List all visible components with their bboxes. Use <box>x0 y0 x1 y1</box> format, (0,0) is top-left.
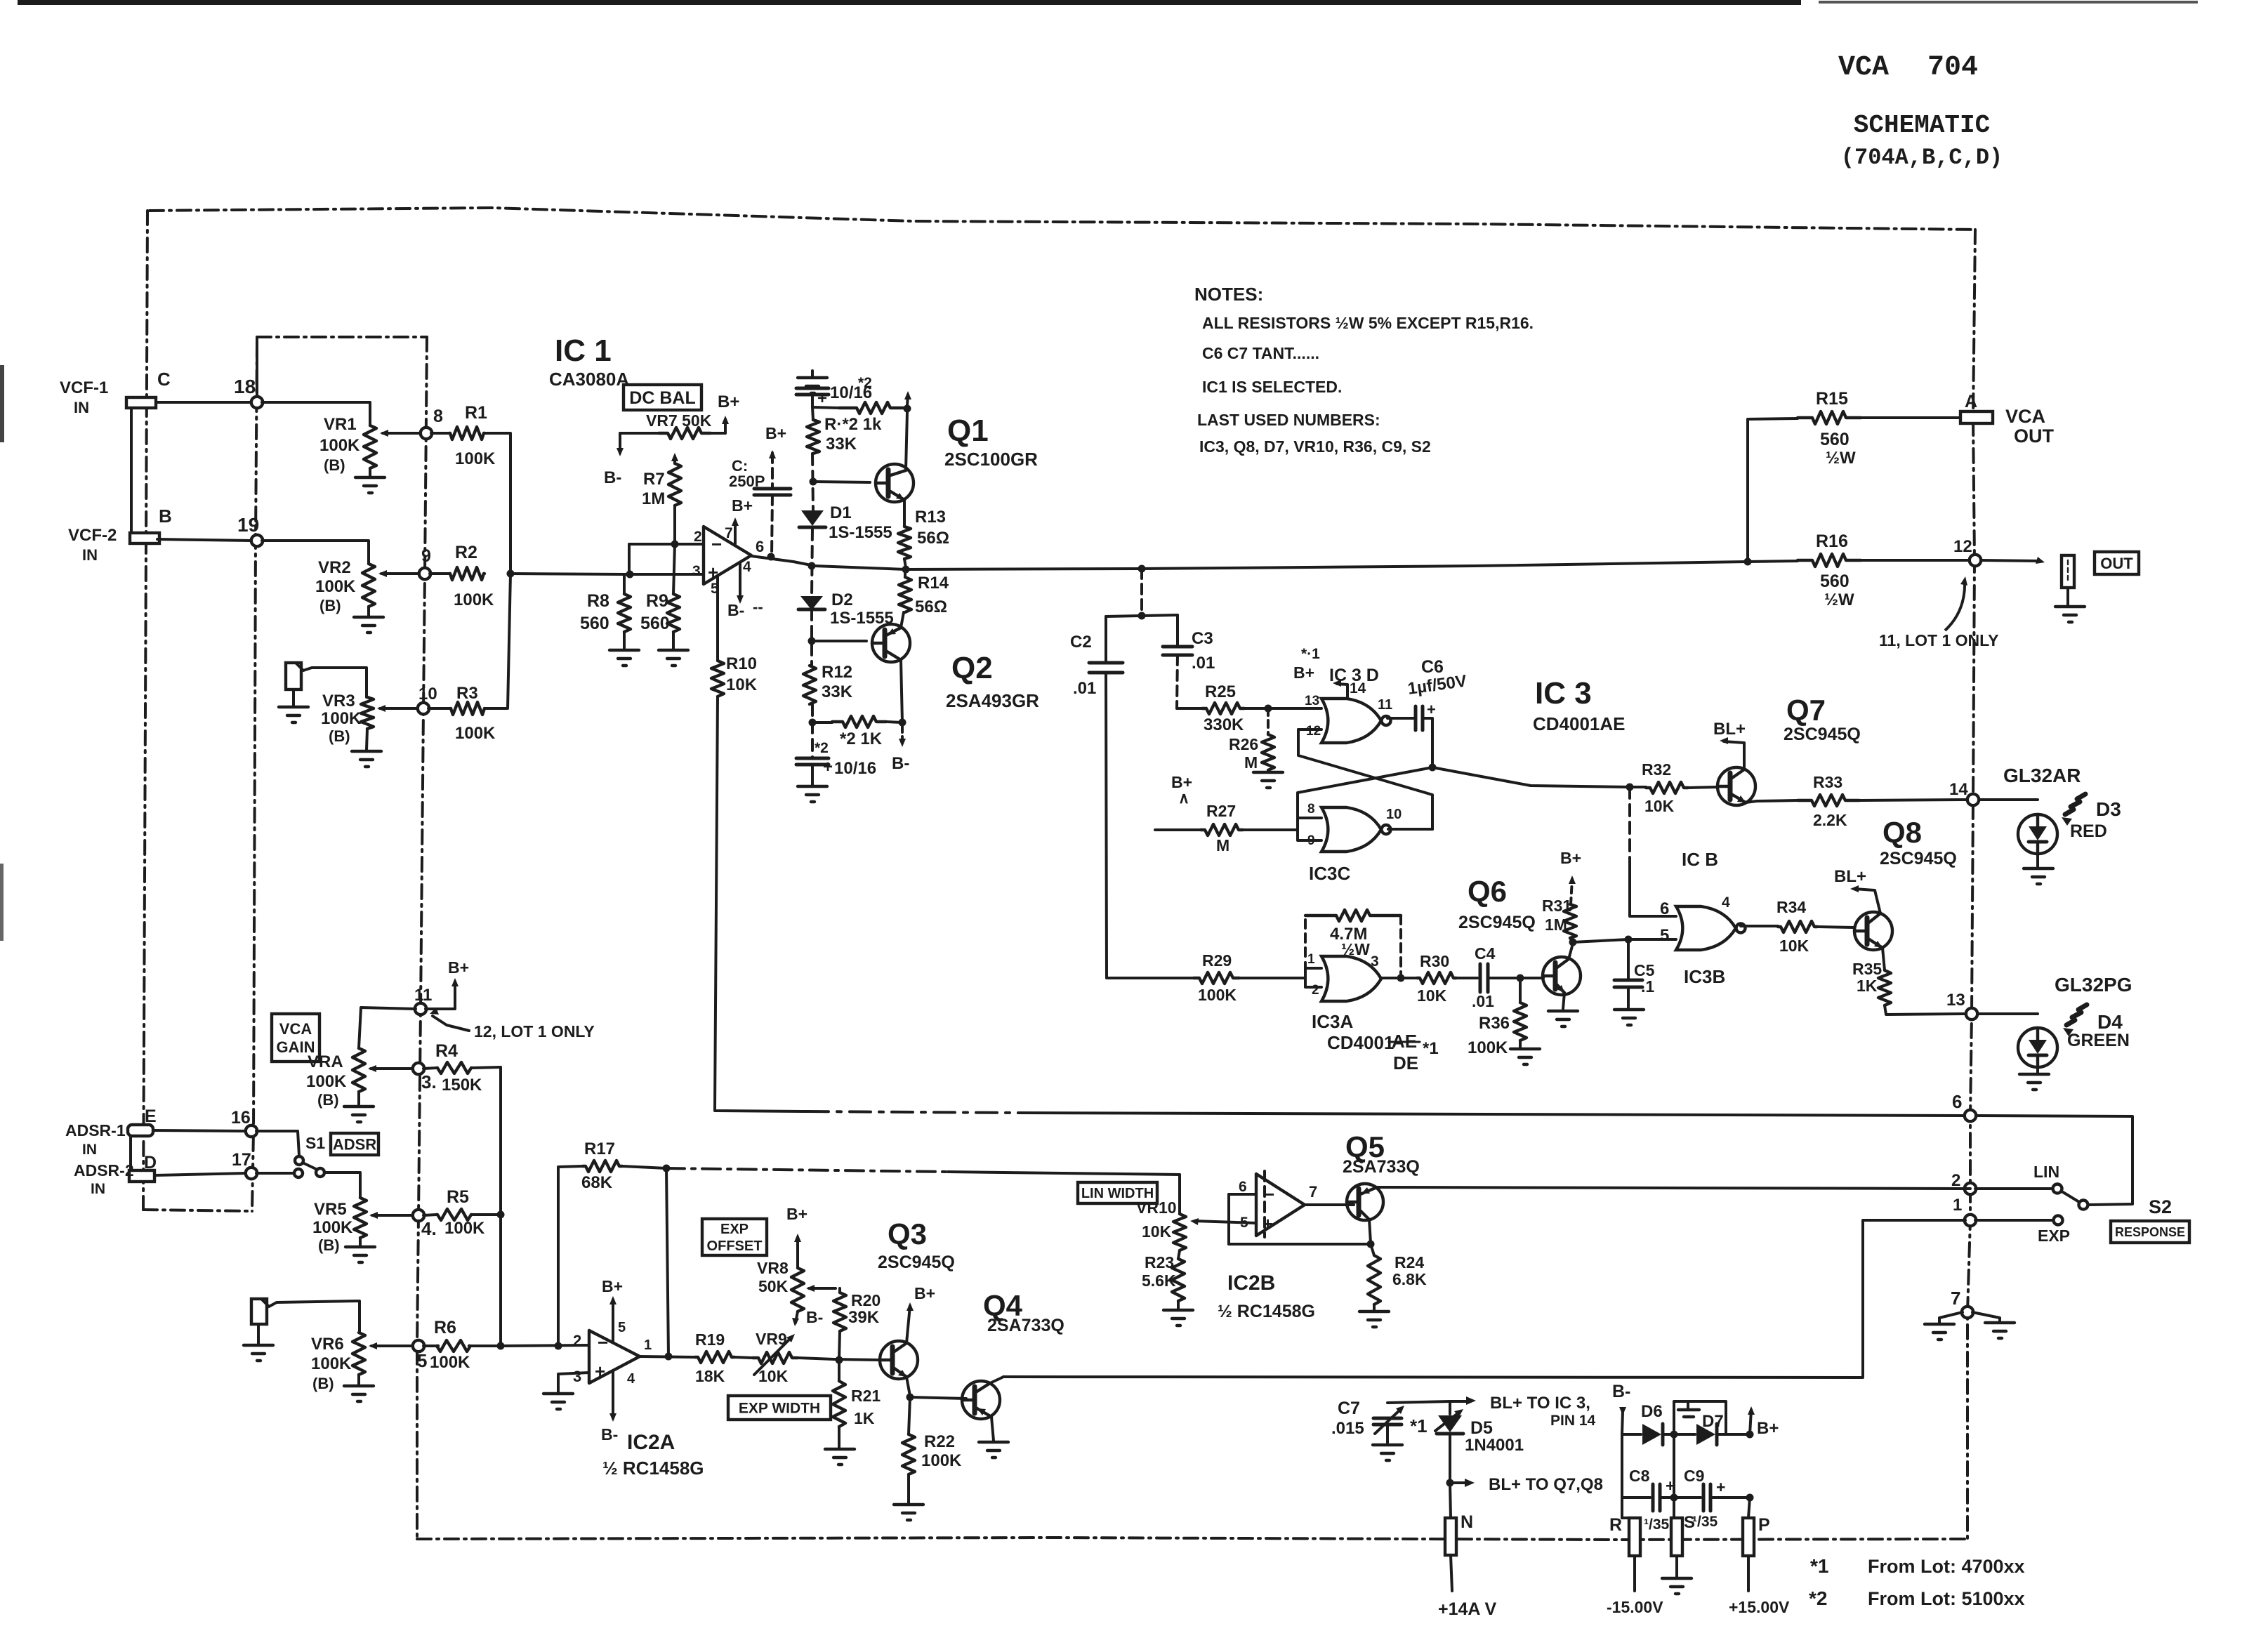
svg-text:S1: S1 <box>305 1134 325 1152</box>
svg-text:R4: R4 <box>435 1041 458 1061</box>
svg-text:ADSR: ADSR <box>333 1135 376 1153</box>
svg-text:M: M <box>1244 753 1258 772</box>
svg-text:(B): (B) <box>324 456 345 474</box>
wire Q7 emitter <box>1746 800 1798 802</box>
wire Q2 emitter <box>901 612 904 628</box>
svg-text:11: 11 <box>1378 697 1392 713</box>
svg-text:R35: R35 <box>1852 960 1882 978</box>
box EXP WIDTH <box>728 1396 831 1420</box>
svg-text:(B): (B) <box>312 1375 334 1392</box>
potentiometer VR1 <box>319 415 425 474</box>
stub bus to C2C3 <box>1138 565 1146 620</box>
svg-text:1M: 1M <box>1545 916 1567 934</box>
svg-text:18: 18 <box>234 376 256 397</box>
NOR gate IC3A <box>1307 952 1381 1032</box>
trimmer VR8 <box>757 1259 836 1312</box>
svg-text:OFFSET: OFFSET <box>707 1238 763 1254</box>
ground R9 <box>659 650 688 666</box>
svg-text:Q6: Q6 <box>1468 875 1507 908</box>
ground R8 <box>609 650 639 666</box>
svg-text:B-: B- <box>806 1308 823 1326</box>
svg-text:−: − <box>711 534 722 555</box>
svg-text:C6 C7 TANT......: C6 C7 TANT...... <box>1202 344 1319 362</box>
ground R24 <box>1359 1304 1389 1327</box>
label ADSR-1 IN <box>65 1121 126 1158</box>
svg-text:R30: R30 <box>1420 952 1449 970</box>
svg-text:33K: 33K <box>826 435 857 454</box>
svg-text:39K: 39K <box>848 1308 880 1327</box>
wire N to +14AV <box>1438 1555 1496 1619</box>
bias column dash-dot <box>812 395 813 758</box>
transistor Q3 <box>878 1217 955 1379</box>
svg-text:R21: R21 <box>851 1387 881 1405</box>
svg-text:N: N <box>1461 1512 1473 1532</box>
svg-text:4: 4 <box>627 1371 635 1387</box>
node 8 <box>421 407 443 439</box>
transistor Q6 <box>1458 875 1581 995</box>
node 5 <box>413 1340 428 1371</box>
svg-text:B-: B- <box>727 601 744 619</box>
node 11 <box>414 986 432 1015</box>
svg-text:B-: B- <box>1612 1382 1630 1401</box>
svg-text:IC3A: IC3A <box>1312 1011 1353 1032</box>
svg-text:R36: R36 <box>1479 1014 1510 1033</box>
resistor R20 <box>833 1288 881 1360</box>
svg-text:4: 4 <box>743 559 751 575</box>
wire node18 to VR1 <box>262 402 370 425</box>
wire C6 down <box>1423 718 1432 767</box>
resistor R23 <box>1142 1250 1185 1301</box>
svg-text:RED: RED <box>2070 821 2107 841</box>
svg-text:2.2K: 2.2K <box>1813 811 1847 829</box>
junction R8 on +input <box>626 571 634 579</box>
IC1 pin4 B- arrow <box>727 562 763 619</box>
svg-text:6: 6 <box>1952 1091 1962 1112</box>
svg-text:R6: R6 <box>434 1318 456 1337</box>
svg-text:From Lot: 5100xx: From Lot: 5100xx <box>1868 1588 2025 1609</box>
svg-text:100K: 100K <box>454 590 494 609</box>
ground R23 <box>1163 1301 1193 1326</box>
svg-text:R10: R10 <box>726 654 757 673</box>
svg-text:6: 6 <box>756 538 764 555</box>
svg-text:1M: 1M <box>642 489 665 508</box>
wire VR9 to Q3 <box>834 1359 880 1360</box>
svg-text:VR8: VR8 <box>757 1259 789 1277</box>
resistor R12 33K <box>803 663 853 704</box>
wire node14 to D3 <box>1979 798 2038 801</box>
title VCA 704 <box>1838 52 1978 84</box>
transistor Q1 <box>876 414 1038 502</box>
svg-text:1S-1555: 1S-1555 <box>829 523 892 542</box>
junction R17 bottom <box>555 1342 562 1350</box>
svg-text:EXP: EXP <box>720 1222 749 1237</box>
svg-text:10K: 10K <box>1142 1222 1172 1241</box>
svg-text:R1: R1 <box>465 403 487 423</box>
resistor R27 <box>1155 802 1298 854</box>
resistor R supply <box>1609 1498 1670 1556</box>
resistor R26 <box>1229 708 1274 772</box>
svg-text:½ RC1458G: ½ RC1458G <box>1218 1302 1315 1321</box>
node 9 <box>419 546 431 579</box>
svg-text:2: 2 <box>1312 983 1319 998</box>
svg-text:D6: D6 <box>1641 1402 1663 1421</box>
B- arrow VR8 <box>792 1308 823 1326</box>
svg-text:B+: B+ <box>1757 1419 1779 1438</box>
capacitor C1 <box>729 424 791 556</box>
NOR gate IC3D <box>1305 694 1392 743</box>
wire latch to R32 <box>1432 767 1630 787</box>
trimmer VR3 <box>321 692 418 745</box>
trimmer connector VR3 <box>286 663 367 697</box>
svg-text:2SA733Q: 2SA733Q <box>987 1316 1064 1335</box>
svg-text:2: 2 <box>694 529 702 545</box>
svg-text:C9: C9 <box>1684 1467 1704 1485</box>
svg-text:5: 5 <box>417 1350 427 1371</box>
svg-text:R15: R15 <box>1816 389 1848 409</box>
svg-text:100K: 100K <box>312 1218 353 1237</box>
resistor R15 <box>1748 389 1959 562</box>
svg-text:560: 560 <box>580 614 609 633</box>
ground VRA <box>344 1092 374 1122</box>
wire IC2A out to R19 <box>640 1356 695 1357</box>
svg-text:1: 1 <box>1307 952 1315 967</box>
svg-text:4.: 4. <box>421 1218 437 1239</box>
B+ arrow IC2A <box>602 1277 623 1342</box>
capacitor C7 <box>1331 1399 1404 1443</box>
note from lot 1 <box>1810 1555 2025 1577</box>
svg-text:R9: R9 <box>646 591 668 611</box>
svg-text:3: 3 <box>692 563 701 579</box>
box LIN WIDTH <box>1078 1182 1157 1203</box>
wire node12 to OUT <box>1981 557 2045 564</box>
IC3A input bracket <box>1305 963 1321 987</box>
svg-text:R3: R3 <box>456 684 478 703</box>
svg-text:560: 560 <box>1820 572 1850 591</box>
ground D4 <box>2019 1067 2049 1090</box>
svg-text:B+: B+ <box>448 958 469 977</box>
title (704A,B,C,D) <box>1841 145 2003 171</box>
B+ arrow Q3 <box>906 1284 935 1343</box>
wire E-D link <box>129 1136 132 1170</box>
trimmer VR7 <box>620 411 725 439</box>
svg-text:56Ω: 56Ω <box>917 529 949 548</box>
transistor Q5 <box>1343 1130 1420 1220</box>
junction R6 <box>497 1342 505 1350</box>
svg-text:VCA: VCA <box>1838 52 1889 84</box>
resistor R16 <box>1748 531 1967 609</box>
capacitor C9 <box>1670 1434 1751 1518</box>
svg-text:−: − <box>598 1332 608 1353</box>
svg-text:5.6K: 5.6K <box>1142 1271 1176 1290</box>
svg-text:+: + <box>1427 701 1436 718</box>
svg-text:IC2A: IC2A <box>627 1431 675 1454</box>
svg-text:(B): (B) <box>318 1236 340 1254</box>
svg-text:R14: R14 <box>918 574 949 593</box>
node 13 <box>1946 991 1977 1019</box>
resistor *2 1K horizontal low <box>812 716 902 748</box>
switch S1 <box>256 1131 325 1177</box>
wire R35 to node 13 <box>1885 1005 1966 1015</box>
svg-text:D3: D3 <box>2096 798 2121 820</box>
svg-text:2SC945Q: 2SC945Q <box>1880 849 1957 868</box>
resistor 1K *2 horizontal <box>812 402 907 434</box>
svg-text:R2: R2 <box>455 543 477 562</box>
panel dash through IC2B <box>1263 1171 1266 1237</box>
node 16 <box>231 1108 257 1137</box>
svg-text:VR5: VR5 <box>314 1200 347 1219</box>
svg-text:PIN 14: PIN 14 <box>1550 1413 1596 1429</box>
svg-text:13: 13 <box>1305 694 1319 708</box>
svg-text:DE: DE <box>1393 1052 1418 1073</box>
transistor Q2 <box>872 624 1039 711</box>
junction R15 R16 <box>1744 558 1752 566</box>
ground trimmer VR3 connector <box>279 689 308 722</box>
ground C5 <box>1614 987 1644 1025</box>
B+ arm of VR7 <box>718 392 739 433</box>
svg-text:R27: R27 <box>1206 802 1236 820</box>
resistor R4 <box>423 1041 501 1095</box>
resistor P supply <box>1743 1494 1770 1557</box>
diode D1 <box>799 503 892 542</box>
wire Q4 emitter <box>990 1377 1003 1383</box>
connector C (VCF-1) <box>126 369 171 408</box>
wire Q6 collector <box>1569 939 1577 960</box>
ground VR6 <box>344 1375 374 1401</box>
svg-text:R22: R22 <box>924 1432 955 1451</box>
ground OUT jack <box>2055 588 2085 622</box>
svg-text:IN: IN <box>82 1142 97 1158</box>
svg-text:½W: ½W <box>1341 940 1370 958</box>
svg-text:ALL RESISTORS ½W 5% EXCEPT R15: ALL RESISTORS ½W 5% EXCEPT R15,R16. <box>1202 314 1534 332</box>
wire Q5 to node2 <box>1377 1187 1970 1189</box>
wire node11 to VRA <box>359 1008 416 1048</box>
potentiometer VRA <box>306 1048 413 1109</box>
junction R5 <box>497 1211 505 1219</box>
svg-text:LIN: LIN <box>2033 1163 2059 1181</box>
svg-text:*2: *2 <box>858 375 872 391</box>
capacitor C4 <box>1472 944 1517 1010</box>
wire Q5 collector feedback <box>1229 1220 1375 1248</box>
svg-text:5: 5 <box>618 1320 626 1335</box>
svg-text:R32: R32 <box>1642 760 1671 779</box>
svg-text:½W: ½W <box>1826 449 1856 468</box>
wire R1 to R2 junction <box>484 433 510 574</box>
svg-text:R29: R29 <box>1202 951 1232 970</box>
wire E to node16 <box>153 1130 246 1131</box>
node 4 <box>413 1210 437 1239</box>
svg-text:Q7: Q7 <box>1786 694 1826 727</box>
ground top of bias column <box>798 371 827 393</box>
svg-text:VR7 50K: VR7 50K <box>646 411 712 430</box>
wire junction to IC1 +input <box>510 574 704 574</box>
svg-text:R25: R25 <box>1205 682 1236 701</box>
svg-text:560: 560 <box>1820 430 1850 449</box>
svg-text:B-: B- <box>892 754 909 773</box>
cross wire B <box>1298 767 1432 814</box>
node 17 <box>232 1150 257 1179</box>
svg-text:C6: C6 <box>1421 657 1444 677</box>
wire Q1 base <box>813 482 870 482</box>
ground Q4 collector <box>979 1417 1008 1458</box>
resistor R24 <box>1368 1244 1427 1304</box>
svg-text:11: 11 <box>414 986 432 1005</box>
svg-text:7: 7 <box>1951 1288 1960 1309</box>
wire pin6 drop <box>1630 787 1676 916</box>
connector pin column dash-dot <box>252 343 257 1211</box>
box ADSR <box>331 1133 378 1155</box>
ground C7 <box>1373 1445 1402 1460</box>
junction bias column on bus <box>808 562 816 570</box>
svg-text:VR1: VR1 <box>324 415 357 434</box>
junction R32 <box>1626 784 1634 791</box>
label CD4001AE DE <box>1327 1031 1439 1073</box>
potentiometer VR5 <box>312 1198 413 1254</box>
B+ label IC3C <box>1171 773 1192 807</box>
wire Q2 collector <box>899 660 906 727</box>
svg-text:12, LOT 1 ONLY: 12, LOT 1 ONLY <box>474 1022 595 1040</box>
junction R13 bus <box>902 559 910 574</box>
diode D6 <box>1622 1402 1674 1445</box>
junction latch out <box>1429 764 1437 772</box>
ground IC2A pin3 <box>543 1373 589 1409</box>
svg-text:C: C <box>157 369 171 390</box>
svg-text:100K: 100K <box>430 1353 470 1372</box>
svg-text:2SC945Q: 2SC945Q <box>1784 725 1861 744</box>
svg-text:12: 12 <box>1306 724 1321 739</box>
wire R17 to VR10 <box>666 1168 1180 1175</box>
svg-text:B-: B- <box>604 468 621 487</box>
svg-text:VCF-2: VCF-2 <box>68 526 117 545</box>
svg-text:9: 9 <box>421 546 431 566</box>
label IC3 <box>1533 676 1626 734</box>
svg-text:330K: 330K <box>1204 715 1244 734</box>
svg-text:B-: B- <box>601 1425 618 1443</box>
junction R36 <box>1517 975 1524 982</box>
svg-text:5: 5 <box>1240 1215 1248 1231</box>
IC3D pin12 stub <box>1298 728 1321 731</box>
svg-text:BL+: BL+ <box>1713 720 1746 739</box>
svg-text:1: 1 <box>1953 1196 1962 1215</box>
svg-text:Q2: Q2 <box>951 651 993 685</box>
svg-text:3: 3 <box>573 1368 581 1385</box>
svg-text:M: M <box>1216 836 1229 854</box>
node 6 <box>1952 1091 1976 1121</box>
ground VR5 <box>345 1238 375 1262</box>
svg-text:--: -- <box>753 598 763 616</box>
svg-text:+: + <box>1716 1478 1725 1496</box>
svg-text:100K: 100K <box>444 1219 485 1238</box>
junction IC2A output <box>665 1353 673 1361</box>
svg-text:2SC945Q: 2SC945Q <box>1458 913 1536 932</box>
resistor R14 <box>899 569 949 616</box>
svg-text:IC 1: IC 1 <box>555 333 612 368</box>
wire Q6 to IC3B pin5 <box>1573 939 1676 942</box>
wire output bus <box>751 556 1748 569</box>
box EXP OFFSET <box>702 1219 767 1255</box>
resistor R36 <box>1468 978 1527 1057</box>
diode D7 <box>1670 1424 1751 1445</box>
wire node1 to EXP <box>1975 1219 2053 1222</box>
wire node19 to VR2 <box>262 541 369 564</box>
svg-text:R: R <box>1609 1515 1622 1535</box>
svg-text:¹/35: ¹/35 <box>1692 1514 1718 1530</box>
svg-text:(B): (B) <box>317 1091 339 1109</box>
wire IC1 -input <box>629 543 704 546</box>
label GL32PG <box>2055 974 2132 996</box>
wire Q2 base <box>812 640 866 642</box>
BL+ arrow Q7 <box>1713 720 1746 769</box>
supply center tap <box>1674 1401 1726 1434</box>
svg-text:VR6: VR6 <box>311 1335 344 1354</box>
ground R21 <box>825 1427 855 1465</box>
svg-text:Q8: Q8 <box>1883 816 1922 849</box>
svg-text:B+: B+ <box>765 424 786 442</box>
svg-text:1K: 1K <box>1857 977 1878 995</box>
svg-text:R34: R34 <box>1776 898 1806 916</box>
notes text <box>1194 284 1534 456</box>
capacitor +10/16 *2 bottom <box>796 740 876 778</box>
svg-text:R16: R16 <box>1816 531 1848 551</box>
op-amp IC2B <box>1218 1174 1317 1321</box>
svg-text:5: 5 <box>1660 926 1669 945</box>
wire R4R5R6 vertical <box>499 1067 502 1346</box>
resistor R21 <box>833 1360 881 1427</box>
connector A VCA OUT <box>1960 392 2055 447</box>
box VCA GAIN <box>272 1014 319 1062</box>
svg-text:¹/35: ¹/35 <box>1644 1517 1670 1533</box>
svg-text:D4: D4 <box>2097 1011 2123 1033</box>
wire C-B link <box>130 408 133 533</box>
capacitor C6 <box>1387 657 1468 730</box>
svg-text:R19: R19 <box>695 1330 725 1349</box>
resistor R22 <box>902 1397 962 1503</box>
resistor R7 <box>642 453 681 544</box>
resistor R8 <box>580 574 631 649</box>
svg-text:17: 17 <box>232 1150 251 1170</box>
svg-text:Q1: Q1 <box>947 414 989 448</box>
svg-text:B: B <box>159 506 172 527</box>
node 12 <box>1953 537 1981 566</box>
resistor R35 <box>1852 948 1891 1005</box>
IC2B input bracket <box>1229 1194 1256 1244</box>
label *1 C7D5 <box>1410 1415 1428 1436</box>
svg-text:GREEN: GREEN <box>2067 1031 2130 1050</box>
svg-text:R24: R24 <box>1395 1253 1424 1271</box>
resistor R28 feedback <box>1305 910 1401 978</box>
svg-text:.015: .015 <box>1331 1419 1364 1438</box>
svg-text:56Ω: 56Ω <box>915 597 947 616</box>
ground VR3 <box>352 729 381 767</box>
capacitor C5 <box>1614 939 1655 996</box>
wire P to +15V <box>1729 1556 1790 1616</box>
svg-text:VR10: VR10 <box>1136 1198 1177 1217</box>
svg-text:R26: R26 <box>1229 735 1258 753</box>
svg-text:10: 10 <box>1386 807 1402 822</box>
node 14 <box>1949 780 1979 805</box>
svg-text:IC 3: IC 3 <box>1535 676 1592 711</box>
wire IC2B out <box>1305 1203 1354 1206</box>
svg-text:IC 3 D: IC 3 D <box>1329 666 1379 685</box>
svg-text:B+: B+ <box>786 1205 807 1223</box>
svg-text:100K: 100K <box>1468 1038 1508 1057</box>
wire Q3 emitter <box>906 1377 914 1401</box>
box RESPONSE <box>2111 1221 2189 1243</box>
svg-text:R·*2 1k: R·*2 1k <box>824 415 882 434</box>
B+ arrow node11 <box>426 958 469 1009</box>
svg-text:½ RC1458G: ½ RC1458G <box>602 1458 704 1479</box>
svg-text:P: P <box>1758 1515 1770 1535</box>
resistor R10 <box>711 654 758 696</box>
